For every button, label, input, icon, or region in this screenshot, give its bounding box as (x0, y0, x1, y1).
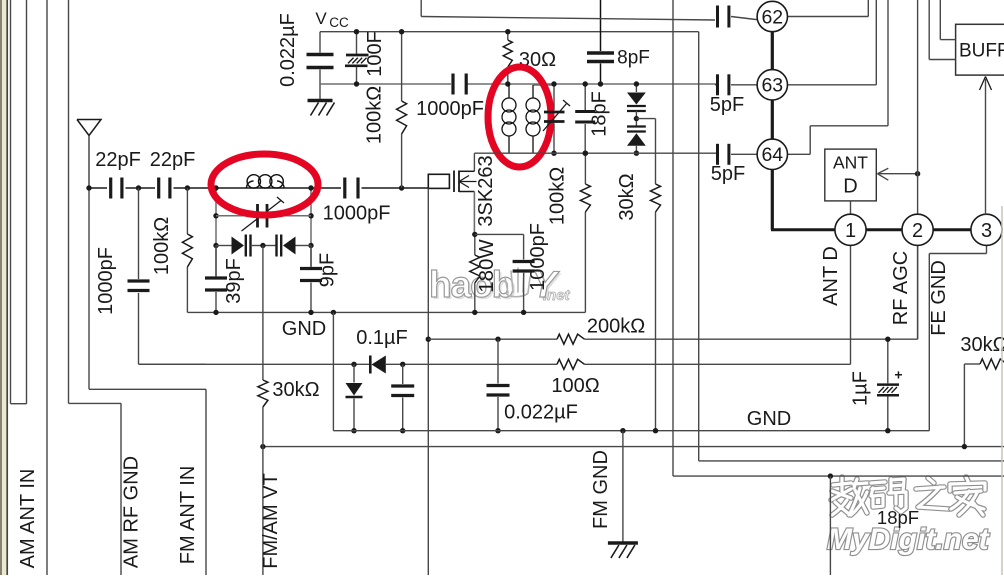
ground (FM GND) (608, 543, 638, 558)
page right edge line (1001, 206, 1003, 575)
svg-text:100kΩ: 100kΩ (151, 217, 173, 275)
pin 63 (757, 70, 787, 100)
junction 18pF bottom (583, 151, 588, 156)
capacitor 1000pF (series main) label (323, 203, 391, 225)
wire AM RF GND line lower (120, 403, 122, 575)
junction 1µF bottom (885, 428, 890, 433)
capacitor 8pF (587, 0, 614, 84)
svg-text:ANT D: ANT D (820, 246, 842, 306)
ground (VCC decoupling) (308, 101, 335, 116)
junction 100k-g2 top (583, 151, 588, 156)
junction 100F bottom (354, 81, 359, 86)
capacitor 18pF (575, 84, 595, 153)
svg-text:0.022µF: 0.022µF (504, 402, 578, 424)
svg-text:100Ω: 100Ω (551, 375, 599, 397)
junction tank left varactor (213, 243, 218, 248)
wire tank right rail (310, 188, 312, 268)
varactor diode D3 (top) (627, 84, 646, 126)
resistor 100kΩ (VCC to gate2) (397, 32, 407, 188)
capacitor 1000pF (series y=84) (453, 74, 466, 95)
svg-text:100F: 100F (364, 31, 386, 77)
svg-text:3SK263: 3SK263 (475, 155, 497, 226)
varactor diode D1 (left) (216, 235, 263, 257)
node FM GND label (590, 450, 612, 529)
wire GND row y=430.7 (333, 430, 929, 432)
resistor 30kΩ (VT) label (272, 379, 319, 401)
wire FM/AM VT row y=446.6 (263, 446, 1004, 448)
junction 0.1uF-section top (331, 310, 336, 315)
node AM ANT IN label (17, 469, 39, 569)
junction trimmer bottom (551, 151, 556, 156)
resistor 100kΩ (gate2 bias) label (547, 167, 569, 225)
junction 100F top (354, 29, 359, 34)
capacitor 9pF (300, 246, 322, 313)
pin 62 (757, 1, 787, 31)
junction C-shunt top (400, 362, 405, 367)
wire 0.1µF-section left edge (332, 312, 334, 430)
highlight red ellipse 1 (211, 154, 318, 215)
capacitor 22pF #2 label (150, 149, 196, 171)
svg-text:0.022µF: 0.022µF (277, 13, 299, 87)
wire 63 cap to pin (715, 84, 760, 86)
capacitor 5pF (pin64) label (711, 163, 745, 185)
junction 18pF top (583, 81, 588, 86)
capacitor (shunt, 0.1µF section) (391, 364, 414, 430)
wire gray rail y=84 (320, 83, 717, 85)
capacitor 22pF #2 (159, 178, 170, 199)
junction tank left mid (213, 213, 218, 218)
svg-text:+: + (894, 367, 902, 383)
arrow into ANT D (877, 168, 917, 180)
capacitor 1000pF (lower left) label (95, 247, 117, 315)
svg-text:5pF: 5pF (711, 163, 745, 185)
wire FM ANT IN line upper (88, 188, 90, 389)
svg-text:D: D (843, 176, 857, 198)
resistor 100Ω (557, 359, 585, 369)
wire AM bus line 2 (x=26.5) (26, 0, 28, 404)
capacitor 18pF label (589, 91, 611, 137)
wire rail up x=585.4 (584, 212, 586, 312)
inductor L1 (FM tank) (247, 175, 285, 188)
svg-text:64: 64 (761, 144, 783, 166)
capacitor 1000pF (source bypass) label (527, 223, 549, 291)
svg-text:18pF: 18pF (589, 91, 611, 137)
transformer T1 secondary (526, 85, 554, 153)
capacitor 100F electrolytic (345, 32, 369, 84)
junction trimmer top (551, 81, 556, 86)
junction antenna-main (86, 185, 91, 190)
watermark 数码之家 (831, 477, 985, 515)
wire 1000pF branch down (139, 188, 207, 364)
capacitor 22pF #1 label (95, 149, 141, 171)
resistor 30kΩ (right edge) label (960, 334, 1004, 356)
junction 30Ω bottom (505, 81, 510, 86)
node ANT D pin label (820, 246, 842, 306)
resistor 100Ω label (551, 375, 599, 397)
wire FM ANT IN jog (89, 388, 206, 390)
svg-text:30kΩ: 30kΩ (616, 173, 638, 220)
wire AM RF GND jog (69, 402, 122, 404)
varactor diode D2 (right) (263, 235, 311, 257)
svg-text:GND: GND (282, 318, 326, 340)
svg-text:FM ANT IN: FM ANT IN (177, 466, 199, 565)
node RF AGC pin label (890, 251, 912, 325)
resistor 30kΩ (right edge) (964, 359, 1004, 447)
svg-text:62: 62 (761, 6, 783, 28)
junction 30k-AGC bottom (653, 428, 658, 433)
watermark MyDigit.net (827, 523, 991, 556)
capacitor trimmer (FM tank) (216, 197, 311, 231)
highlight red ellipse 2 (488, 67, 551, 167)
junction 30Ω top (505, 29, 510, 34)
junction varactor center (260, 243, 265, 248)
svg-text:200kΩ: 200kΩ (587, 316, 645, 338)
junction arrow-RFAGC (915, 171, 920, 176)
resistor 30Ω label (519, 49, 556, 71)
resistor 200kΩ (557, 334, 585, 344)
junction 30k-right bottom (962, 444, 967, 449)
node FM/AM VT label (260, 473, 282, 569)
box ANT D (825, 149, 877, 201)
watermark haobuy (429, 264, 571, 307)
resistor 180W label (475, 239, 498, 293)
wire long vertical x=673 (672, 0, 674, 476)
svg-text:63: 63 (761, 75, 783, 97)
wire BUF pin1 (940, 0, 955, 40)
junction VT node (260, 444, 265, 449)
junction tank right varactor (308, 243, 313, 248)
junction 100k-vcc top (399, 29, 404, 34)
capacitor 0.022µF (VCC) label (277, 13, 299, 87)
wire 62 cap to pin (731, 17, 760, 21)
wire 64 cap to pin (731, 153, 760, 155)
capacitor 0.022µF (AGC filter) label (504, 402, 578, 424)
svg-text:30kΩ: 30kΩ (960, 334, 1004, 356)
pin 3 (971, 214, 1002, 245)
junction 18pF branch (828, 473, 833, 478)
svg-text:22pF: 22pF (150, 149, 196, 171)
svg-text:9pF: 9pF (317, 253, 339, 287)
capacitor 100F label (364, 31, 386, 77)
resistor 30kΩ (VT) (258, 246, 268, 447)
capacitor 1000pF (source bypass) (513, 234, 535, 312)
svg-text:100kΩ: 100kΩ (364, 86, 386, 144)
diode D6 (shunt) (346, 364, 363, 430)
node GND label (right) (747, 408, 791, 430)
box BUF (956, 24, 1004, 75)
svg-text:ANT: ANT (833, 153, 868, 173)
resistor 180W (source) (470, 234, 480, 312)
junction 1µF top (885, 337, 890, 342)
wire FM GND line (622, 431, 624, 542)
wire 62 input (421, 0, 715, 20)
junction varactor pair mid (634, 116, 639, 121)
transformer T1 primary (502, 84, 516, 153)
svg-text:V: V (315, 9, 327, 28)
capacitor 5pF (pin63) label (710, 94, 744, 116)
junction 180W bottom (472, 310, 477, 315)
wire AM ANT IN line (46, 0, 48, 575)
resistor 30kΩ (AGC) (651, 184, 661, 431)
wire bottom run y=460.9 (699, 460, 1004, 462)
resistor 100kΩ (antenna bias) (182, 188, 192, 312)
wire FM/AM VT line down (262, 447, 264, 575)
junction 39pF bottom (213, 310, 218, 315)
svg-text:FM/AM VT: FM/AM VT (260, 473, 282, 569)
svg-text:2: 2 (912, 220, 923, 242)
junction source node (472, 232, 477, 237)
capacitor 1µF label (850, 371, 872, 406)
wire source to 1000pF (475, 233, 524, 235)
junction 0.022-2 top (495, 337, 500, 342)
wire varactor mid to 30k (636, 119, 655, 184)
arrow pin3 to BUF (980, 77, 992, 215)
svg-text:180W: 180W (475, 239, 498, 293)
svg-text:39pF: 39pF (223, 258, 245, 304)
node FE GND label (928, 260, 950, 336)
node GND label (left) (282, 318, 326, 340)
svg-text:1: 1 (845, 220, 856, 242)
junction 8pF bottom (598, 81, 603, 86)
capacitor 9pF label (317, 253, 339, 287)
wire FE GND step (929, 244, 986, 430)
wire 100Ω row y=364.3 (139, 244, 851, 364)
svg-text:1000pF: 1000pF (527, 223, 549, 291)
capacitor 0.022µF (VCC) (307, 32, 334, 100)
diode D5 label 0.1µF (356, 327, 408, 349)
svg-text:1000pF: 1000pF (95, 247, 117, 315)
wire RF AGC vertical (917, 0, 919, 339)
capacitor trimmer (IF) (543, 84, 570, 153)
capacitor 8pF label (617, 48, 650, 69)
wire AM bus jog (11, 403, 27, 405)
svg-text:AM RF GND: AM RF GND (121, 456, 143, 568)
capacitor 1µF electrolytic (877, 339, 903, 431)
svg-text:FE GND: FE GND (928, 260, 950, 336)
svg-text:8pF: 8pF (617, 48, 650, 69)
wire 63 to right (785, 0, 876, 85)
svg-text:BUFF: BUFF (959, 41, 1004, 62)
capacitor 39pF (205, 246, 227, 313)
junction 0.022-2 bottom (495, 428, 500, 433)
antenna (77, 120, 101, 189)
capacitor 1000pF (lower left) (128, 281, 150, 291)
junction 100k-vcc bottom (399, 185, 404, 190)
wire AM RF GND line upper (68, 0, 70, 403)
junction 9pF bottom (308, 310, 313, 315)
capacitor 39pF label (223, 258, 245, 304)
junction varactor pair bottom (634, 151, 639, 156)
pin 64 (757, 139, 787, 169)
wire 18pF branch down (829, 476, 831, 575)
resistor 100kΩ (antenna bias) label (151, 217, 173, 275)
svg-text:FM GND: FM GND (590, 450, 612, 529)
capacitor 5pF (pin64) (718, 144, 729, 165)
capacitor 5pF (pin63) (718, 74, 729, 95)
transistor Q1 label 3SK263 (475, 155, 497, 226)
node FM ANT IN label (177, 466, 199, 565)
svg-text:1000pF: 1000pF (323, 203, 391, 225)
svg-text:GND: GND (747, 408, 791, 430)
svg-text:CC: CC (329, 15, 349, 30)
transistor Q1 3SK263 (428, 171, 476, 235)
junction D6 top (351, 362, 356, 367)
svg-text:22pF: 22pF (95, 149, 141, 171)
wire FM ANT IN line lower (205, 389, 207, 575)
capacitor 1000pF (series main) (345, 178, 358, 199)
varactor diode D4 (bottom) (627, 127, 646, 154)
wire long vertical bottom run y=476.1 (673, 475, 1004, 477)
wire 200k row y=339.2 (428, 246, 917, 340)
junction tank right mid (308, 213, 313, 218)
wire VCC drop x=698.7 (698, 32, 700, 461)
capacitor 22pF #1 (111, 178, 122, 199)
junction varactor pair top (634, 81, 639, 86)
wire gate1 line x=428.3 (427, 188, 429, 575)
resistor 100kΩ (gate2 bias) (580, 153, 590, 212)
resistor 100kΩ (VCC) label (364, 86, 386, 144)
junction FM GND branch (620, 428, 625, 433)
wire main FM input line y=188 (89, 187, 428, 189)
node AM RF GND label (121, 456, 143, 568)
wire 62 to right (785, 0, 868, 17)
page left border strip (0, 0, 8, 575)
capacitor 0.022µF (AGC filter) (487, 339, 510, 431)
resistor 30Ω (503, 32, 512, 84)
wire drain row y=153.2 (474, 153, 717, 171)
svg-text:5pF: 5pF (710, 94, 744, 116)
resistor 200kΩ label (587, 316, 645, 338)
junction gate-200k (426, 337, 431, 342)
capacitor 18pF (bottom) label (877, 507, 919, 528)
resistor 30kΩ (AGC) label (616, 173, 638, 220)
svg-text:RF AGC: RF AGC (890, 251, 912, 325)
wire BUF pin2 (929, 0, 955, 60)
wire VCC rail y=31.7 (320, 31, 699, 33)
pin 1 (835, 214, 866, 245)
junction 1000pF branch (136, 185, 141, 190)
svg-text:18pF: 18pF (877, 507, 919, 528)
svg-text:3: 3 (981, 220, 992, 242)
capacitor (pin62) (718, 6, 729, 28)
junction tank left top (213, 185, 218, 190)
wire tank left rail (215, 188, 217, 277)
svg-text:30kΩ: 30kΩ (272, 379, 319, 401)
diode D5 (series) (370, 356, 386, 374)
junction tank right top (308, 185, 313, 190)
wire 64 to right step (785, 0, 888, 154)
IC bus thick (771, 17, 987, 230)
junction src-bypass bottom (521, 310, 526, 315)
svg-text:1µF: 1µF (850, 371, 872, 406)
svg-text:AM ANT IN: AM ANT IN (17, 469, 39, 569)
capacitor 1000pF (series y=84) label (416, 98, 484, 120)
svg-text:1000pF: 1000pF (416, 98, 484, 120)
node VCC label (315, 9, 349, 30)
svg-text:0.1µF: 0.1µF (356, 327, 408, 349)
junction 100k top (185, 185, 190, 190)
wire AM bus line 1 (x=10.5) (10, 0, 12, 404)
svg-text:100kΩ: 100kΩ (547, 167, 569, 225)
junction D6 bottom (351, 428, 356, 433)
wire FM section ground rail y=312.4 (187, 311, 585, 313)
pin 2 (902, 214, 933, 245)
junction C-shunt bottom (400, 428, 405, 433)
wire ANT D stem (850, 201, 852, 215)
